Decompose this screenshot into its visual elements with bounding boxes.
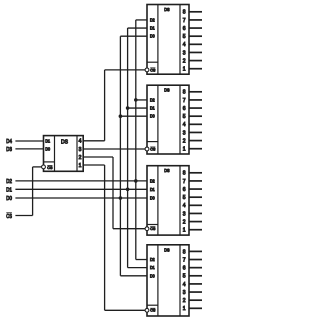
svg-text:6: 6 bbox=[183, 26, 186, 32]
svg-text:7: 7 bbox=[183, 257, 186, 263]
svg-text:D0: D0 bbox=[150, 34, 155, 39]
svg-text:4: 4 bbox=[183, 122, 186, 128]
svg-text:5: 5 bbox=[183, 274, 186, 280]
svg-text:3: 3 bbox=[183, 130, 186, 136]
svg-text:D2: D2 bbox=[150, 257, 155, 262]
svg-text:3: 3 bbox=[79, 147, 82, 153]
svg-text:1: 1 bbox=[183, 67, 186, 73]
svg-text:7: 7 bbox=[183, 98, 186, 104]
svg-text:7: 7 bbox=[183, 179, 186, 185]
svg-text:D2: D2 bbox=[150, 97, 155, 102]
svg-text:7: 7 bbox=[183, 18, 186, 24]
svg-text:6: 6 bbox=[183, 106, 186, 112]
svg-text:4: 4 bbox=[183, 282, 186, 288]
svg-text:2: 2 bbox=[183, 58, 186, 64]
svg-text:5: 5 bbox=[183, 114, 186, 120]
svg-text:D0: D0 bbox=[150, 273, 155, 278]
svg-text:8: 8 bbox=[183, 249, 186, 255]
svg-text:D0: D0 bbox=[45, 146, 50, 151]
svg-text:4: 4 bbox=[79, 139, 82, 145]
svg-text:6: 6 bbox=[183, 266, 186, 272]
svg-text:1: 1 bbox=[79, 163, 82, 169]
svg-text:1: 1 bbox=[183, 306, 186, 312]
svg-text:4: 4 bbox=[183, 42, 186, 48]
svg-text:4: 4 bbox=[183, 203, 186, 209]
svg-text:2: 2 bbox=[79, 155, 82, 161]
svg-text:8: 8 bbox=[183, 10, 186, 16]
svg-text:2: 2 bbox=[183, 219, 186, 225]
svg-text:D2: D2 bbox=[150, 178, 155, 183]
svg-text:D1: D1 bbox=[150, 187, 155, 192]
svg-text:6: 6 bbox=[183, 187, 186, 193]
svg-text:D1: D1 bbox=[150, 26, 155, 31]
svg-text:D3: D3 bbox=[6, 147, 12, 153]
svg-text:DS: DS bbox=[164, 88, 169, 93]
svg-text:5: 5 bbox=[183, 34, 186, 40]
svg-text:8: 8 bbox=[183, 171, 186, 177]
svg-text:2: 2 bbox=[183, 298, 186, 304]
svg-text:3: 3 bbox=[183, 50, 186, 56]
svg-text:D1: D1 bbox=[150, 265, 155, 270]
svg-text:1: 1 bbox=[183, 147, 186, 153]
svg-text:5: 5 bbox=[183, 195, 186, 201]
svg-text:D0: D0 bbox=[150, 196, 155, 201]
svg-text:3: 3 bbox=[183, 290, 186, 296]
svg-text:D1: D1 bbox=[150, 106, 155, 111]
svg-text:DS: DS bbox=[164, 7, 169, 12]
svg-text:D0: D0 bbox=[150, 114, 155, 119]
svg-text:DS: DS bbox=[61, 139, 68, 145]
svg-text:D4: D4 bbox=[6, 139, 12, 145]
svg-text:D1: D1 bbox=[6, 187, 12, 193]
svg-text:D2: D2 bbox=[150, 17, 155, 22]
svg-text:1: 1 bbox=[183, 228, 186, 234]
svg-text:3: 3 bbox=[183, 211, 186, 217]
svg-text:DS: DS bbox=[164, 168, 169, 173]
svg-text:8: 8 bbox=[183, 90, 186, 96]
svg-text:2: 2 bbox=[183, 138, 186, 144]
svg-text:CS: CS bbox=[6, 214, 12, 220]
svg-text:D2: D2 bbox=[6, 179, 12, 185]
svg-text:DS: DS bbox=[164, 247, 169, 252]
svg-text:D0: D0 bbox=[6, 196, 12, 202]
svg-text:D1: D1 bbox=[45, 138, 50, 143]
